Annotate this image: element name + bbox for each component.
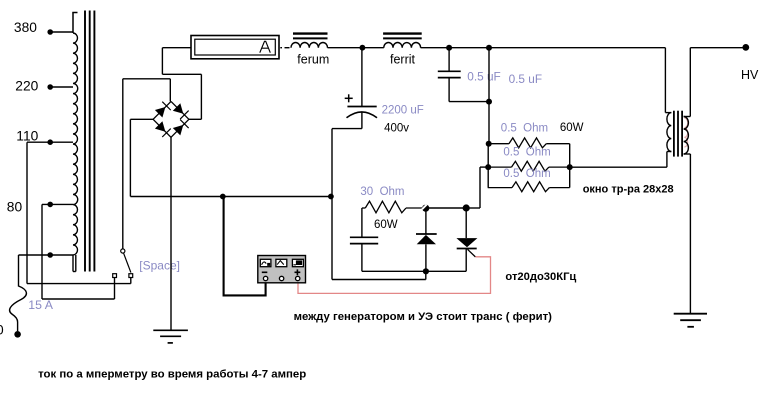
wire switch common feed bbox=[122, 79, 124, 249]
svg-text:60W: 60W bbox=[560, 122, 584, 134]
svg-text:15 A: 15 A bbox=[28, 298, 53, 312]
svg-text:от20до30КГц: от20до30КГц bbox=[505, 271, 576, 283]
wire node to L2 bbox=[362, 47, 383, 49]
switch S1 (mains voltage selector) bbox=[113, 249, 133, 278]
resistor R1 0.5 Ohm bbox=[489, 138, 570, 148]
svg-text:0.5 Ohm: 0.5 Ohm bbox=[503, 147, 550, 159]
wire bridge - output to negative rail bbox=[130, 119, 153, 196]
wire gate (red) to generator + bbox=[298, 257, 491, 294]
HV terminal bbox=[742, 44, 749, 51]
svg-text:ferrit: ferrit bbox=[390, 53, 416, 67]
tap 110 terminal bbox=[47, 139, 53, 145]
svg-text:окно тр-ра 28x28: окно тр-ра 28x28 bbox=[583, 183, 674, 195]
resistor R2 0.5 Ohm bbox=[489, 161, 570, 171]
svg-text:80: 80 bbox=[7, 200, 23, 215]
capacitor C1 2200uF polarity + bbox=[345, 94, 353, 102]
wire L2 to C2 node bbox=[421, 47, 450, 49]
node main/R-bank feed bbox=[486, 45, 492, 51]
bridge diode D3 (L to B) bbox=[155, 121, 171, 137]
wire 80-tap down to switch throw bbox=[42, 204, 115, 299]
wire T2 secondary top to HV bbox=[690, 48, 746, 117]
svg-text:0: 0 bbox=[0, 322, 4, 337]
plug terminal (mains) bbox=[14, 331, 21, 338]
wire AC to bridge top (from switch) bbox=[123, 79, 171, 102]
svg-text:0.5 Ohm: 0.5 Ohm bbox=[501, 122, 548, 134]
svg-text:380: 380 bbox=[14, 20, 37, 35]
bridge diode D4 (B to R) bbox=[173, 120, 189, 136]
resistor R3 0.5 Ohm bbox=[488, 182, 570, 192]
wire negative rail bbox=[130, 196, 332, 198]
svg-text:0.5 Ohm: 0.5 Ohm bbox=[503, 168, 550, 180]
node DC+ (C1 junction) bbox=[360, 45, 366, 51]
bridge rectifier BR1 diamond bbox=[153, 101, 189, 137]
wire R-bank to snubber top bbox=[467, 167, 488, 208]
capacitor C1 2200uF bbox=[347, 48, 378, 129]
node C2 top bbox=[446, 45, 452, 51]
resistor R4 30 Ohm bbox=[362, 201, 426, 213]
tap 220 terminal bbox=[47, 84, 53, 90]
svg-text:30 Ohm: 30 Ohm bbox=[360, 186, 404, 198]
svg-text:ток по а мперметру во время ра: ток по а мперметру во время работы 4-7 а… bbox=[38, 368, 306, 380]
wire tap 0 bbox=[19, 254, 74, 256]
node negative rail / C1 bbox=[328, 194, 334, 200]
fuse F1 15A (squiggle lead to plug) bbox=[10, 255, 27, 331]
node snubber bottom / diode bbox=[423, 268, 429, 274]
tap 380 terminal bbox=[47, 29, 53, 35]
svg-text:между генератором и УЭ стоит т: между генератором и УЭ стоит транс ( фер… bbox=[294, 311, 553, 323]
diode D5 (freewheel, pointing up) bbox=[416, 208, 437, 271]
bridge diode D1 (L to T) bbox=[155, 102, 171, 118]
wire R-bank left bus bbox=[487, 144, 489, 188]
transformer T2 secondary (right coil) bbox=[684, 117, 691, 155]
node R-bank left top bbox=[486, 141, 492, 147]
wire R-bank right bus bbox=[569, 144, 571, 188]
transformer T2 red winding mark bbox=[684, 118, 687, 147]
tap 80 terminal bbox=[47, 202, 53, 208]
capacitor C3 snubber bbox=[350, 208, 378, 271]
ground (left) bbox=[153, 330, 188, 343]
svg-text:[Space]: [Space] bbox=[139, 258, 180, 272]
svg-text:220: 220 bbox=[15, 78, 38, 93]
ammeter A1 bbox=[191, 36, 279, 59]
wire ammeter to L1 (dash-dot) bbox=[280, 47, 289, 49]
wire top rail down to T2 bbox=[664, 48, 666, 113]
wire generator - to negative rail bbox=[224, 197, 266, 296]
svg-text:0.5 uF: 0.5 uF bbox=[467, 69, 500, 83]
wire bridge AC bottom to ground bbox=[170, 137, 172, 330]
wire tap 220 bbox=[50, 86, 73, 88]
node R-bank left mid bbox=[485, 164, 491, 170]
svg-text:ferum: ferum bbox=[297, 53, 329, 67]
wire R-bank feed vertical bbox=[488, 48, 490, 144]
node negative rail / generator bbox=[220, 194, 226, 200]
svg-text:2200 uF: 2200 uF bbox=[382, 105, 424, 117]
ground (right) bbox=[674, 314, 707, 327]
wire tap 380 bbox=[50, 31, 73, 33]
capacitor C2 0.5uF bbox=[438, 48, 489, 102]
wire L1 to node bbox=[328, 47, 363, 49]
transformer T1 primary winding (autotransformer, taps 380/220/110/80/0) bbox=[72, 13, 77, 272]
node R-bank right mid bbox=[567, 164, 573, 170]
svg-text:110: 110 bbox=[16, 128, 38, 143]
bridge diode D2 (T to R) bbox=[173, 103, 189, 119]
wire T2 secondary bottom to ground bbox=[689, 154, 691, 314]
node C2 bottom junction bbox=[486, 99, 492, 105]
node thyristor anode bbox=[463, 204, 470, 211]
wire rail to snubber bottom bbox=[332, 271, 426, 279]
wire snubber top link bbox=[426, 207, 467, 209]
svg-text:60W: 60W bbox=[374, 219, 398, 231]
svg-text:HV: HV bbox=[741, 68, 759, 82]
transformer T2 primary (left coil) bbox=[665, 113, 671, 152]
svg-text:400v: 400v bbox=[384, 122, 409, 134]
wire C1 minus to negative rail bbox=[332, 129, 362, 280]
wire tap 110 bbox=[27, 141, 73, 143]
transformer T1 core bbox=[85, 11, 94, 272]
node D5 top (junction with notch) bbox=[422, 205, 429, 212]
wire snubber bottom rail bbox=[362, 270, 466, 272]
inductor L1 ferum bbox=[291, 34, 328, 48]
wire top rail to resistor bank bbox=[449, 47, 665, 49]
wire bridge + output to ammeter bbox=[162, 48, 201, 120]
wire tap 80 bbox=[42, 203, 73, 205]
transformer T2 core bbox=[674, 111, 682, 157]
thyristor Q1 bbox=[456, 208, 477, 271]
generator G1 (function generator) bbox=[258, 256, 306, 283]
wire R-bank to T2 primary bbox=[570, 152, 672, 168]
svg-text:0.5 uF: 0.5 uF bbox=[509, 72, 542, 86]
wire 110-tap down to switch throw bbox=[27, 142, 131, 283]
inductor L2 ferrit bbox=[383, 34, 422, 48]
tap 0 terminal bbox=[47, 252, 53, 258]
